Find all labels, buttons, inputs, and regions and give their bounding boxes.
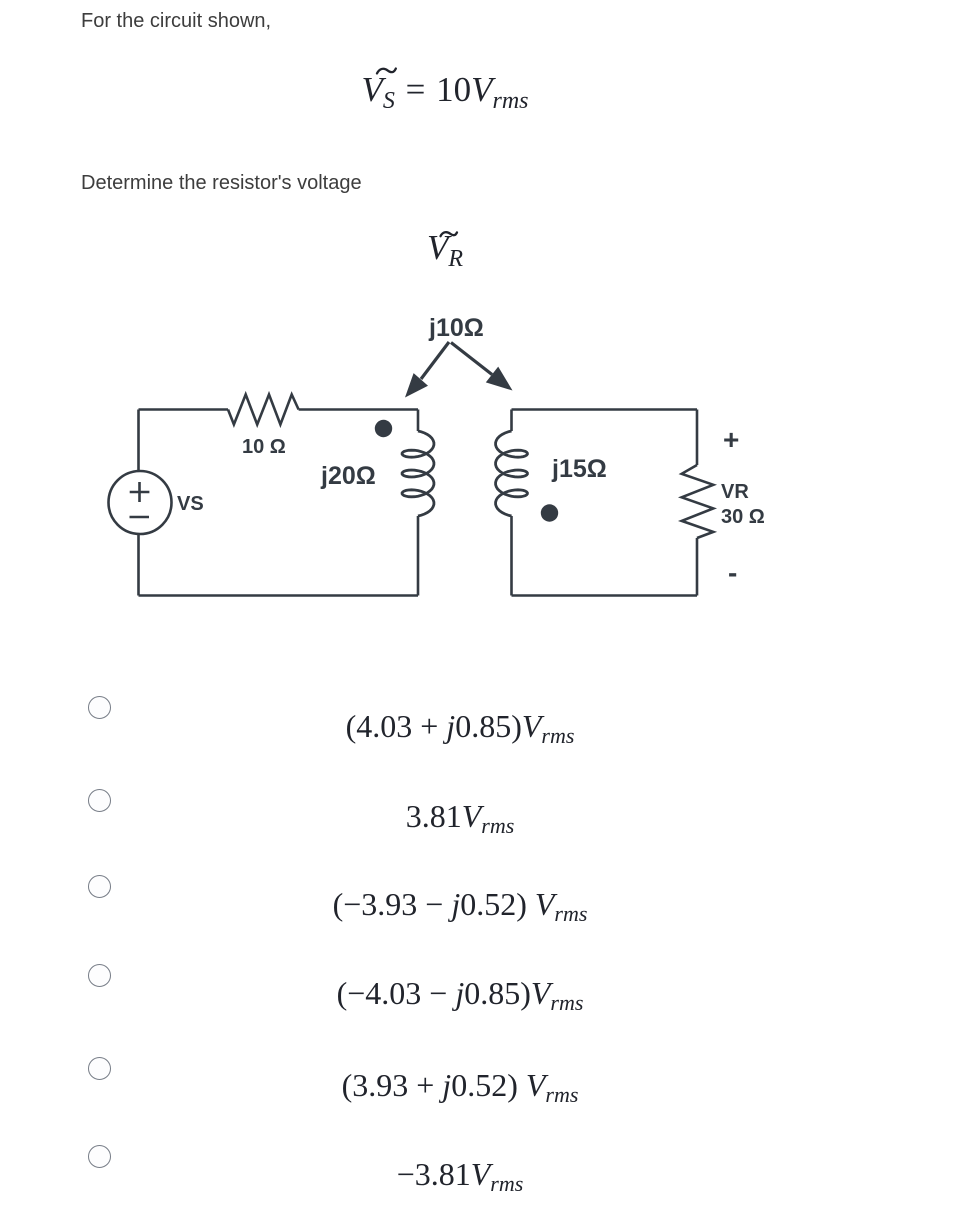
circuit schematic <box>0 0 955 650</box>
wire: left loop left side lower <box>137 534 140 596</box>
option 6 text <box>0 1158 920 1200</box>
minus sign inside source <box>130 516 150 519</box>
wire: right loop top <box>512 408 698 411</box>
svg-text:VR: VR <box>721 481 749 503</box>
svg-text:VS: VS <box>177 493 204 515</box>
svg-text:30 Ω: 30 Ω <box>721 506 765 528</box>
mutual coupling arrow right <box>451 343 513 391</box>
option 1 text <box>0 710 920 752</box>
dot marker L1 <box>375 420 392 437</box>
radio option 1 <box>88 696 111 719</box>
wire: left loop bottom <box>139 594 419 597</box>
svg-text:10 Ω: 10 Ω <box>242 436 286 458</box>
svg-text:j15Ω: j15Ω <box>551 455 607 483</box>
inductor L1 j20ohm coil <box>402 431 434 516</box>
wire: left loop top (resistor to coil corner) <box>299 408 418 411</box>
resistor VR 30ohm zigzag <box>682 465 714 538</box>
wire: left loop top (source to resistor) <box>139 408 229 411</box>
problem statement line 1 <box>81 11 271 31</box>
option 4 text <box>0 977 920 1019</box>
wire: right loop right side below resistor <box>696 538 699 596</box>
tilde accent over Vs in equation <box>377 69 396 74</box>
radio option 5 <box>88 1057 111 1080</box>
wire: left loop left side upper <box>137 410 140 472</box>
wire: right loop left side below coil <box>510 516 513 596</box>
plus sign inside source <box>130 482 150 502</box>
svg-text:j20Ω: j20Ω <box>320 462 376 490</box>
wire: left loop right side below coil <box>417 516 420 596</box>
equation Vs = 10Vrms <box>0 72 890 119</box>
dot marker L2 <box>541 504 558 521</box>
option 2 text <box>0 800 920 842</box>
wire: right loop right side above resistor <box>696 410 699 466</box>
wire: right loop bottom <box>512 594 698 597</box>
mutual coupling arrow left <box>405 342 449 398</box>
resistor R 10ohm zigzag <box>228 395 299 425</box>
wire: right loop left side above coil <box>510 410 513 432</box>
problem statement line 2 <box>81 173 362 193</box>
option 5 text <box>0 1069 920 1111</box>
option 3 text <box>0 888 920 930</box>
wire: left loop right side above coil <box>417 410 420 432</box>
svg-text:+: + <box>723 424 739 455</box>
inductor L2 j15ohm coil <box>496 431 528 516</box>
svg-text:j10Ω: j10Ω <box>428 314 484 342</box>
voltage source VS circle <box>109 471 172 534</box>
radio option 6 <box>88 1145 111 1168</box>
radio option 3 <box>88 875 111 898</box>
radio option 2 <box>88 789 111 812</box>
tilde accent over VR in equation <box>441 232 458 236</box>
equation VR <box>0 230 890 277</box>
radio option 4 <box>88 964 111 987</box>
svg-text:-: - <box>728 557 737 588</box>
